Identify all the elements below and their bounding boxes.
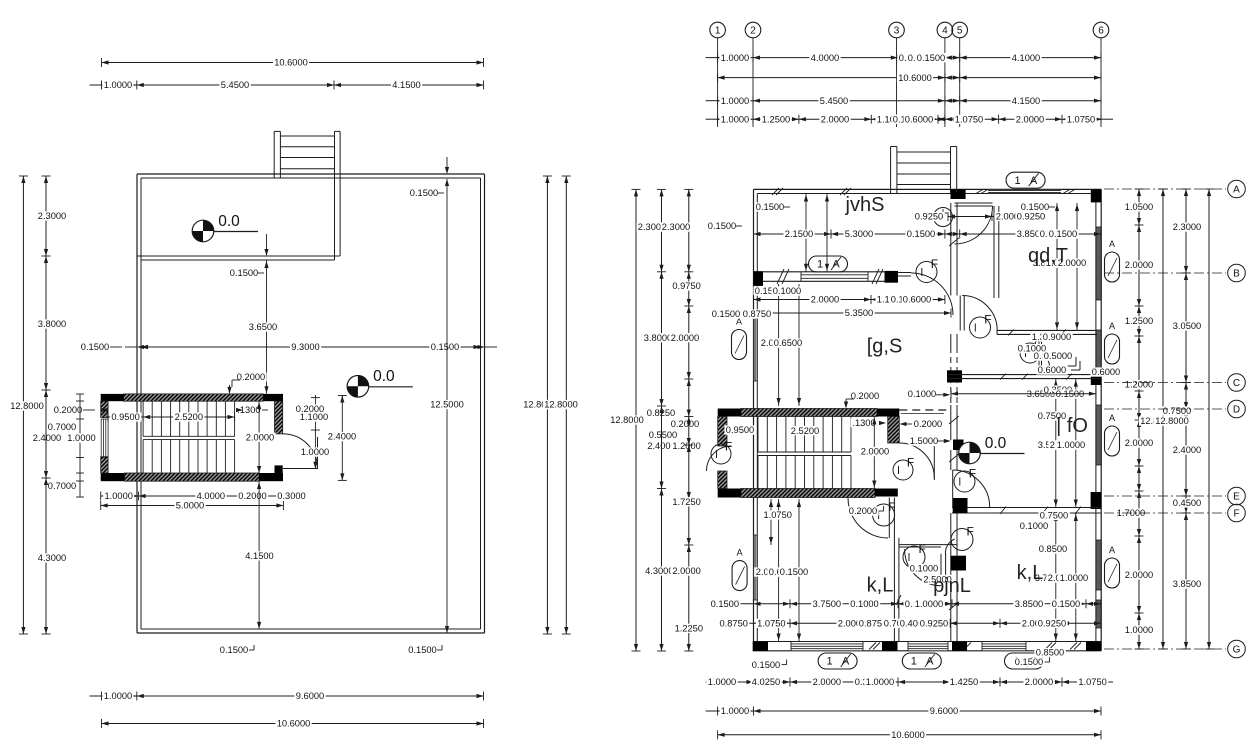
window tag right wall 4 <box>1105 558 1120 588</box>
dim 10.6000 bottom right <box>718 734 1101 736</box>
svg-text:F: F <box>967 524 974 538</box>
svg-text:1.0000: 1.0000 <box>866 677 894 687</box>
svg-text:A: A <box>1109 321 1115 331</box>
svg-text:0.1500: 0.1500 <box>1015 657 1043 667</box>
svg-text:0.7000: 0.7000 <box>48 422 76 432</box>
stair bottom wall black R <box>259 473 283 481</box>
dim line 2.4000 <box>341 395 343 480</box>
dim 10.6000 top left plan <box>102 62 484 64</box>
stair right wall <box>275 401 283 434</box>
svg-text:0.9000: 0.9000 <box>1043 332 1071 342</box>
stair left wall lower <box>718 471 727 489</box>
svg-text:6: 6 <box>1098 25 1104 36</box>
interior wall h outer <box>137 255 340 257</box>
svg-text:0.1500: 0.1500 <box>81 342 109 352</box>
door 7 kL left <box>888 498 890 539</box>
dim 3.6500 line <box>266 260 268 394</box>
dim col r2 <box>1185 189 1187 649</box>
svg-text:1.0000: 1.0000 <box>915 599 943 609</box>
grid line 4 <box>944 38 946 127</box>
interior wall h inner <box>141 259 335 261</box>
svg-text:1.0000: 1.0000 <box>67 433 95 443</box>
dim row y299 <box>754 299 945 301</box>
stair top wall black L <box>101 394 124 401</box>
bulge rung <box>280 146 334 148</box>
window in right wall <box>1096 330 1100 368</box>
dim 12.8000 r1 <box>546 176 548 634</box>
svg-text:F: F <box>725 440 732 454</box>
grid bubble A <box>1104 188 1226 190</box>
svg-text:5: 5 <box>957 25 963 36</box>
svg-text:0.2000: 0.2000 <box>851 391 879 401</box>
level marker 0.0 main <box>347 376 369 398</box>
svg-text:0.6000: 0.6000 <box>1092 367 1120 377</box>
column right EF <box>1091 492 1102 509</box>
svg-text:1.0000: 1.0000 <box>721 53 749 63</box>
window tag 1A bottom1 <box>818 653 857 669</box>
svg-text:12.8000: 12.8000 <box>610 415 644 425</box>
svg-text:0.0: 0.0 <box>373 368 395 385</box>
svg-text:0.1500: 0.1500 <box>230 268 258 278</box>
bulge post <box>334 131 336 178</box>
stair left wall upper <box>101 401 108 417</box>
svg-text:5.4500: 5.4500 <box>820 96 848 106</box>
stair treads right plan <box>757 417 759 453</box>
svg-text:1.2500: 1.2500 <box>1125 316 1153 326</box>
bottom 0.1500 leaders <box>218 645 249 654</box>
svg-text:0.1500: 0.1500 <box>917 53 945 63</box>
stair bottom wall black L <box>101 473 125 481</box>
bulge post <box>956 147 958 194</box>
grid bubble 4 <box>937 22 953 38</box>
svg-text:3: 3 <box>894 25 900 36</box>
window tag 1A bottom3 <box>1005 653 1044 669</box>
svg-text:A: A <box>1030 175 1038 187</box>
stair doors right plan <box>899 443 934 478</box>
svg-text:pjnL: pjnL <box>933 575 971 597</box>
svg-text:F: F <box>1233 508 1239 519</box>
wall between fO and kL right <box>952 507 1101 509</box>
column grid4/5 top <box>951 189 966 199</box>
svg-text:1.5000: 1.5000 <box>910 436 938 446</box>
grid line 6 <box>1100 38 1102 127</box>
bulge post <box>273 131 275 178</box>
column center pjnL <box>951 556 966 571</box>
top wall outer <box>754 188 1102 190</box>
window in bottom wall <box>791 642 863 650</box>
grid bubble 3 <box>889 22 905 38</box>
svg-text:3.6500: 3.6500 <box>249 322 277 332</box>
grid bubble E <box>1104 495 1226 497</box>
bulge rung <box>897 162 951 164</box>
stair left dim col <box>79 394 81 497</box>
bulge post <box>339 131 341 178</box>
svg-text:1.0000: 1.0000 <box>708 677 736 687</box>
dim 10.6000 bottom <box>102 723 484 725</box>
door tag F stair right <box>893 460 913 480</box>
window in top wall <box>988 190 1061 193</box>
door tag F stair left <box>711 444 731 464</box>
stair right wall stub <box>275 465 283 473</box>
top wall inner west <box>757 193 950 195</box>
svg-text:0.9500: 0.9500 <box>726 425 754 435</box>
svg-text:4.0000: 4.0000 <box>197 491 225 501</box>
window in right wall <box>1096 405 1100 465</box>
column wall B left <box>754 271 764 286</box>
svg-text:| fO: | fO <box>1056 415 1088 437</box>
hatch <box>1066 374 1072 380</box>
svg-text:0.1500: 0.1500 <box>220 645 248 655</box>
dim 5.3500 <box>754 312 952 314</box>
svg-text:5.3500: 5.3500 <box>845 308 873 318</box>
wall bottom inner <box>141 628 481 630</box>
hatch <box>1060 329 1066 335</box>
svg-text:0.1500: 0.1500 <box>712 309 740 319</box>
svg-text:1.0750: 1.0750 <box>757 619 785 629</box>
bulge rung <box>897 151 951 153</box>
svg-text:0.8750: 0.8750 <box>719 619 747 629</box>
dim col left inner <box>45 176 47 634</box>
pjnL door leaf <box>940 554 942 584</box>
door tag F door3 <box>970 317 991 338</box>
svg-text:1: 1 <box>715 25 721 36</box>
svg-text:qd,T: qd,T <box>1028 245 1068 267</box>
svg-text:1.0000: 1.0000 <box>1060 573 1088 583</box>
stair bottom wall hatch <box>125 473 260 481</box>
svg-text:1.7250: 1.7250 <box>672 497 700 507</box>
wall hatch tick <box>869 643 876 650</box>
stair bottom wall hatch <box>741 489 875 498</box>
svg-text:0.1500: 0.1500 <box>711 599 739 609</box>
door tag F pjnL <box>903 546 925 568</box>
svg-text:0.0: 0.0 <box>218 213 240 230</box>
svg-text:4.3000: 4.3000 <box>38 553 66 563</box>
wall left inner <box>140 178 142 629</box>
leader 0.1500 interior wall <box>266 234 268 255</box>
svg-text:0.6000: 0.6000 <box>905 114 933 124</box>
svg-text:F: F <box>984 313 991 327</box>
dim line 0.2/1.1/1.0 <box>314 395 316 469</box>
svg-text:B: B <box>1233 268 1240 279</box>
svg-text:.1300: .1300 <box>852 418 875 428</box>
svg-text:4.3000: 4.3000 <box>645 566 673 576</box>
interior wall v inner <box>334 178 336 260</box>
window tag left wall 1 <box>732 330 747 360</box>
window in left wall <box>754 535 757 600</box>
top wall inner east <box>966 193 1096 195</box>
wall top outer <box>137 173 485 175</box>
svg-text:2.0000: 2.0000 <box>861 447 889 457</box>
stair left wall lower <box>101 457 108 473</box>
right wall inner <box>1095 194 1097 642</box>
svg-text:D: D <box>1233 404 1240 415</box>
window in right wall <box>1096 540 1100 590</box>
hatch <box>896 595 901 605</box>
svg-text:2.0000: 2.0000 <box>1125 570 1153 580</box>
svg-text:2.5200: 2.5200 <box>175 412 203 422</box>
window tag 1A bottom2 <box>902 653 941 669</box>
grid bubble C <box>1104 382 1226 384</box>
svg-text:0.9250: 0.9250 <box>1038 619 1066 629</box>
svg-text:0.2000: 0.2000 <box>54 405 82 415</box>
center wall dashed <box>950 347 952 405</box>
interior dim lines right rooms <box>1056 203 1058 330</box>
svg-text:0.1000: 0.1000 <box>1020 521 1048 531</box>
svg-text:0.1000: 0.1000 <box>773 286 801 296</box>
wall top inner <box>141 177 481 179</box>
svg-text:0.0: 0.0 <box>985 435 1007 452</box>
svg-text:0.2000: 0.2000 <box>238 491 266 501</box>
svg-text:4.1000: 4.1000 <box>1012 53 1040 63</box>
svg-text:10.6000: 10.6000 <box>274 58 308 68</box>
svg-text:0.7500: 0.7500 <box>1163 406 1191 416</box>
svg-text:0.3000: 0.3000 <box>277 491 305 501</box>
window tag right wall 1 <box>1105 252 1120 282</box>
svg-text:1: 1 <box>827 656 833 668</box>
qdT bathroom left wall <box>993 206 995 298</box>
grid bubble 5 <box>952 22 968 38</box>
svg-text:12.5000: 12.5000 <box>430 400 464 410</box>
window in bottom wall <box>908 642 948 650</box>
svg-text:0.1000: 0.1000 <box>910 564 938 574</box>
left wall inner <box>756 194 758 642</box>
svg-text:4: 4 <box>942 25 948 36</box>
hatch <box>1000 374 1006 380</box>
dim 0.9250/2.0 top <box>948 216 1040 218</box>
svg-text:3.8500: 3.8500 <box>1015 599 1043 609</box>
grid bubble D <box>1104 408 1226 410</box>
svg-text:2.1500: 2.1500 <box>785 229 813 239</box>
svg-text:1.1000: 1.1000 <box>300 412 328 422</box>
svg-text:k,L: k,L <box>1017 562 1044 584</box>
svg-text:1: 1 <box>1015 175 1021 187</box>
svg-text:12.8000: 12.8000 <box>544 400 578 410</box>
svg-text:0.7000: 0.7000 <box>48 481 76 491</box>
svg-text:4.1500: 4.1500 <box>1012 96 1040 106</box>
column wall B right <box>885 271 899 283</box>
right wall outer <box>1100 189 1102 650</box>
bulge post <box>279 131 281 178</box>
svg-text:1.2000: 1.2000 <box>1125 380 1153 390</box>
door tag F door7 <box>873 504 895 526</box>
level marker 0.0 right plan <box>959 442 981 464</box>
hatch <box>1022 374 1028 380</box>
dim 12.5000 line <box>446 196 448 633</box>
wall hatch tick <box>1045 643 1052 650</box>
bulge rung <box>897 184 951 186</box>
svg-text:9.6000: 9.6000 <box>930 706 958 716</box>
svg-text:0.1500: 0.1500 <box>780 567 808 577</box>
column bottom 6 <box>1086 642 1101 651</box>
svg-text:0.5000: 0.5000 <box>1044 351 1072 361</box>
svg-text:1.0750: 1.0750 <box>1078 677 1106 687</box>
dim 4.1500 line <box>258 481 260 629</box>
column bottom 3 <box>882 642 898 651</box>
bath partition <box>1038 334 1040 374</box>
svg-text:1.0750: 1.0750 <box>955 114 983 124</box>
svg-text:1.0000: 1.0000 <box>721 706 749 716</box>
bulge rung <box>280 168 334 170</box>
door sill <box>283 468 318 470</box>
dim 12.8000 r2 <box>565 176 567 634</box>
svg-text:2.0000: 2.0000 <box>821 114 849 124</box>
dim row y711 <box>718 710 1101 712</box>
svg-text:1.0000: 1.0000 <box>721 96 749 106</box>
svg-text:0.1500: 0.1500 <box>431 342 459 352</box>
svg-text:A: A <box>1233 184 1240 195</box>
bulge post <box>896 147 898 194</box>
wall hatch tick <box>1070 643 1077 650</box>
shower symbol <box>1067 365 1076 367</box>
dim 12.8000 left <box>22 176 24 634</box>
wall right outer <box>484 174 486 633</box>
svg-text:5.0000: 5.0000 <box>176 501 204 511</box>
dim row y234 <box>754 233 1102 235</box>
grid bubble B <box>1104 272 1226 274</box>
svg-text:2.0000: 2.0000 <box>1125 260 1153 270</box>
svg-text:5.3000: 5.3000 <box>845 229 873 239</box>
wall below jvhS <box>754 271 899 273</box>
svg-text:k,L: k,L <box>867 574 894 596</box>
svg-text:10.6000: 10.6000 <box>898 73 932 83</box>
door tag F door2 <box>916 262 937 283</box>
grid bubble G <box>1104 648 1226 650</box>
landing line <box>143 435 235 437</box>
svg-text:4.1500: 4.1500 <box>245 551 273 561</box>
door 4 bath inner <box>1026 346 1050 370</box>
svg-text:jvhS: jvhS <box>845 194 885 216</box>
level marker 0.0 upper room <box>192 220 214 242</box>
pjnL walls <box>893 538 895 642</box>
svg-text:F: F <box>931 257 938 271</box>
stair left window <box>100 419 102 458</box>
svg-text:1.2500: 1.2500 <box>762 114 790 124</box>
svg-text:2.3000: 2.3000 <box>662 222 690 232</box>
hatch <box>1042 507 1048 515</box>
svg-text:F: F <box>907 456 914 470</box>
svg-text:F: F <box>919 542 926 556</box>
svg-text:F: F <box>888 500 895 514</box>
left wall outer <box>753 189 755 650</box>
grid line 3 <box>896 38 898 127</box>
column right C <box>1091 372 1101 385</box>
stair top wall hatch <box>124 394 264 401</box>
svg-text:0.2000: 0.2000 <box>849 506 877 516</box>
svg-text:1.4250: 1.4250 <box>950 677 978 687</box>
grid bubble 6 <box>1093 22 1109 38</box>
wall hatch tick <box>772 188 779 195</box>
svg-text:1.2250: 1.2250 <box>675 624 703 634</box>
svg-text:1.0000: 1.0000 <box>301 447 329 457</box>
door tag F door4 <box>1020 343 1040 363</box>
svg-text:1.0000: 1.0000 <box>104 80 132 90</box>
svg-text:1.0000: 1.0000 <box>104 491 132 501</box>
svg-text:1.0000: 1.0000 <box>1057 440 1085 450</box>
svg-text:0.1500: 0.1500 <box>1049 229 1077 239</box>
svg-text:0.7500: 0.7500 <box>1040 511 1068 521</box>
svg-text:A: A <box>1109 545 1115 555</box>
svg-text:1.0750: 1.0750 <box>1067 114 1095 124</box>
window tag 1A top <box>1006 172 1045 188</box>
svg-text:2.3000: 2.3000 <box>38 211 66 221</box>
wall hatch tick <box>840 188 847 195</box>
svg-text:0.1500: 0.1500 <box>408 645 436 655</box>
column center C <box>947 370 962 382</box>
column bottom 2 <box>753 642 768 651</box>
wall bottom outer <box>137 632 485 634</box>
window <box>801 274 868 276</box>
window tag right wall 2 <box>1105 334 1120 364</box>
svg-text:[g,S: [g,S <box>867 336 903 358</box>
door tag F door8 <box>954 471 975 492</box>
stair door arc left plan <box>283 434 318 469</box>
bathroom walls <box>997 329 1097 331</box>
svg-text:0.2000: 0.2000 <box>237 372 265 382</box>
svg-text:2.5200: 2.5200 <box>791 426 819 436</box>
wall left outer <box>136 174 138 633</box>
svg-text:4.1500: 4.1500 <box>392 80 420 90</box>
svg-text:2.4000: 2.4000 <box>1173 445 1201 455</box>
svg-text:A: A <box>1109 413 1115 423</box>
interior wall v outer <box>339 178 341 256</box>
door 3 qdT entrance <box>959 296 961 331</box>
svg-text:0.8500: 0.8500 <box>1036 648 1064 658</box>
column center hall <box>953 440 964 451</box>
svg-text:0.9250: 0.9250 <box>915 212 943 222</box>
window tag right wall 3 <box>1105 426 1120 456</box>
dim row y603 <box>740 603 1101 605</box>
door 1 top entrance <box>955 202 993 204</box>
bulge rung <box>280 157 334 159</box>
hatch center wall <box>949 416 959 424</box>
dim row y682 <box>718 681 1101 683</box>
svg-text:0.6000: 0.6000 <box>903 295 931 305</box>
svg-text:0.9250: 0.9250 <box>920 619 948 629</box>
svg-text:1.0000: 1.0000 <box>721 114 749 124</box>
dim row1 right plan <box>718 57 1101 59</box>
svg-text:C: C <box>1233 378 1240 389</box>
svg-text:0.8750: 0.8750 <box>743 309 771 319</box>
svg-text:0.2000: 0.2000 <box>671 419 699 429</box>
window in right wall <box>1096 600 1100 628</box>
grid bubble F <box>1104 512 1226 514</box>
hatch <box>1008 329 1014 335</box>
svg-text:0.4500: 0.4500 <box>1173 498 1201 508</box>
svg-text:0.1000: 0.1000 <box>908 389 936 399</box>
leader 0.1500 top right wall thickness <box>446 157 448 173</box>
dim row y623 <box>726 622 1101 624</box>
dim row3 <box>718 100 1101 102</box>
dim 12.8000 rp <box>635 189 637 651</box>
svg-text:1.0750: 1.0750 <box>763 510 791 520</box>
interior dim lines left rooms <box>805 194 807 272</box>
svg-text:3.8000: 3.8000 <box>644 333 672 343</box>
svg-text:2.3000: 2.3000 <box>1173 222 1201 232</box>
dim 5.0000 <box>101 505 284 507</box>
svg-text:2.0000: 2.0000 <box>1125 438 1153 448</box>
svg-text:2.0000: 2.0000 <box>672 566 700 576</box>
svg-text:1: 1 <box>911 656 917 668</box>
bottom wall inner <box>753 641 1101 643</box>
svg-text:0.8500: 0.8500 <box>1039 544 1067 554</box>
dim 12.8 r <box>1162 189 1164 649</box>
center wall <box>950 203 952 296</box>
stair top wall black R <box>263 394 283 401</box>
wash basin circle <box>934 208 953 227</box>
bulge rung <box>280 135 334 137</box>
beam dashes over hall <box>899 409 951 411</box>
svg-text:2.4000: 2.4000 <box>33 433 61 443</box>
